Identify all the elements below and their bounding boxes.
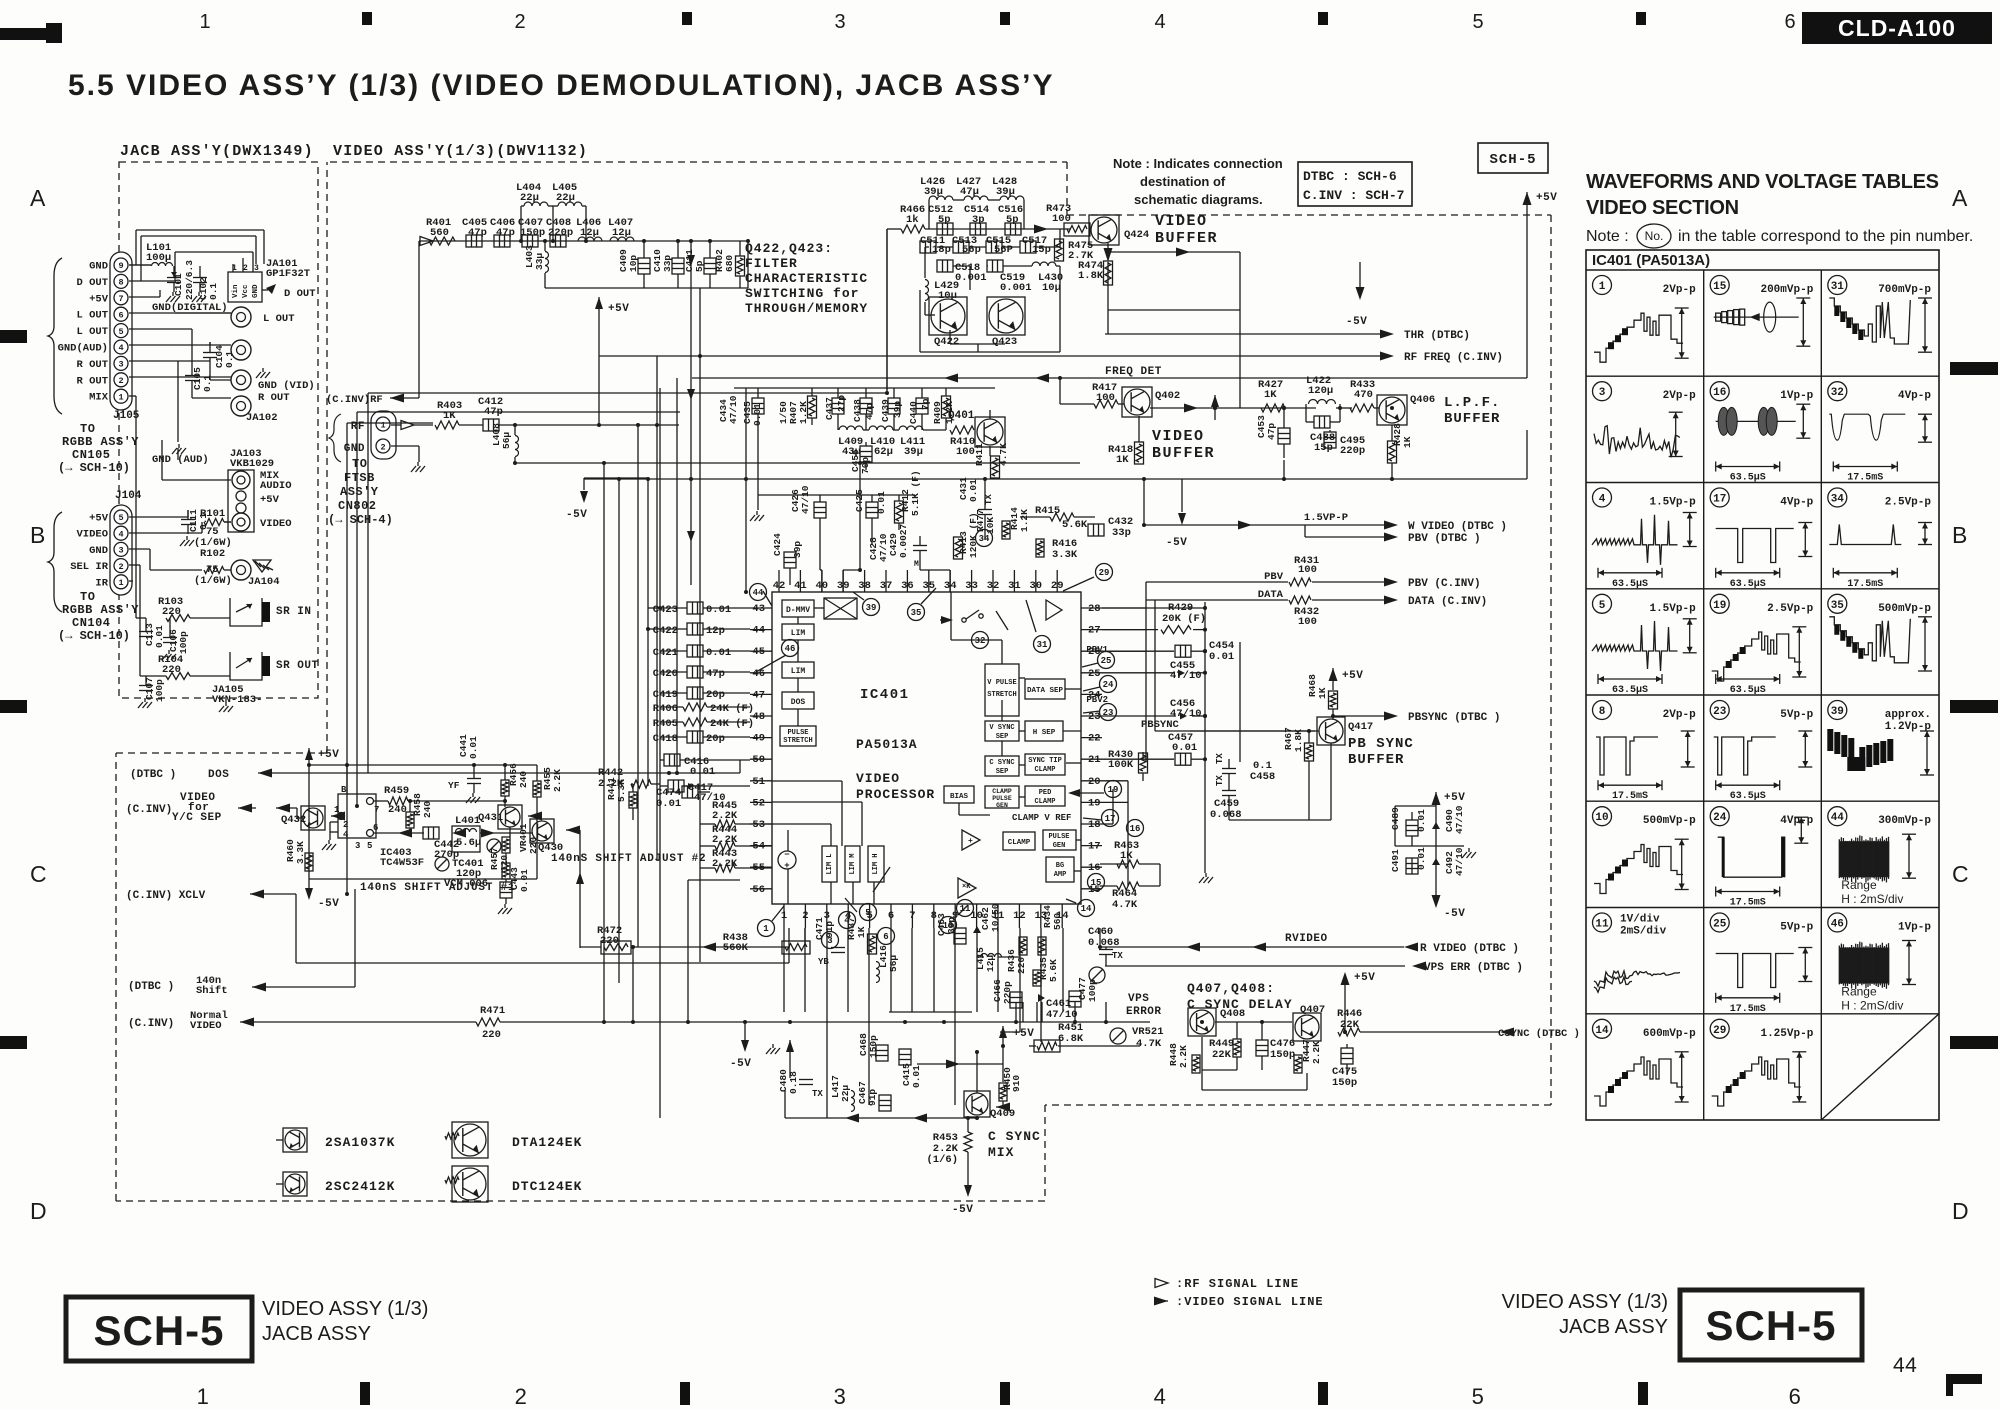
wire misc right <box>1239 642 1241 762</box>
svg-text:220: 220 <box>1016 957 1027 974</box>
up arrow near q402 <box>1211 395 1219 407</box>
svg-text:3.3K: 3.3K <box>1052 549 1078 561</box>
waveform cell pin 15 <box>1710 276 1729 295</box>
svg-text:150p: 150p <box>1332 1077 1357 1089</box>
svg-text:VIDEO ASSY (1/3): VIDEO ASSY (1/3) <box>1502 1291 1668 1313</box>
resistor R455 2.2K <box>533 781 541 797</box>
svg-text:D OUT: D OUT <box>76 277 108 289</box>
svg-text:47/10: 47/10 <box>800 485 811 514</box>
SCH-5 title block left <box>66 1297 252 1361</box>
svg-text:1K: 1K <box>1264 389 1277 401</box>
svg-text:14: 14 <box>1081 904 1092 914</box>
waveform cell pin 4 <box>1593 488 1612 507</box>
right ladder rows <box>1102 607 1205 609</box>
svg-text:-5V: -5V <box>1166 537 1187 549</box>
svg-text:27: 27 <box>1088 625 1101 637</box>
wire vertical x633 lower <box>632 947 634 1022</box>
svg-text:PED: PED <box>1039 789 1052 797</box>
svg-text:C438: C438 <box>852 399 863 422</box>
svg-text:in the table correspond to the: in the table correspond to the pin numbe… <box>1678 228 1973 245</box>
svg-text:VIDEO ASSY (1/3): VIDEO ASSY (1/3) <box>262 1298 428 1320</box>
svg-text:17: 17 <box>1088 841 1101 853</box>
svg-text:No.: No. <box>1645 229 1664 243</box>
svg-text:2: 2 <box>118 376 123 386</box>
svg-text:8: 8 <box>1599 706 1606 718</box>
svg-text:0.01: 0.01 <box>1209 651 1234 663</box>
svg-text:PBV2: PBV2 <box>1086 695 1108 705</box>
svg-text:5: 5 <box>367 841 372 851</box>
svg-text:ASS'Y: ASS'Y <box>340 485 379 499</box>
waveform cell pin 1 <box>1593 276 1612 295</box>
capacitor C475 150p <box>1341 1048 1353 1064</box>
JA101 pin top stubs <box>232 264 234 272</box>
svg-text:10/50: 10/50 <box>990 903 1001 932</box>
block H SEP <box>1025 721 1063 741</box>
legend transistor 2SA1037K <box>283 1128 307 1152</box>
svg-text:IR: IR <box>95 577 108 589</box>
svg-text:0.18: 0.18 <box>788 1071 799 1094</box>
svg-text:0.01: 0.01 <box>752 403 763 426</box>
wire IC bottom pin columns <box>783 928 785 1012</box>
svg-text:VIDEO: VIDEO <box>1152 428 1205 445</box>
svg-text:BG: BG <box>1056 862 1064 870</box>
IC401 outline <box>772 592 1081 904</box>
svg-text:33p: 33p <box>662 255 673 272</box>
svg-text:11: 11 <box>960 904 971 914</box>
svg-text:51: 51 <box>752 776 765 788</box>
capacitor C477 100p <box>1069 991 1081 1007</box>
SR IN jack <box>230 598 262 626</box>
svg-text:47/10: 47/10 <box>728 395 739 424</box>
svg-text:(C.INV) XCLV: (C.INV) XCLV <box>126 890 206 902</box>
svg-text:12μ: 12μ <box>985 955 996 972</box>
svg-text:approx.: approx. <box>1885 709 1931 721</box>
CSYNC arrow <box>1500 1028 1514 1037</box>
open arrow after CN601 <box>401 421 414 430</box>
wire horizontal bus y479 <box>584 478 1527 480</box>
svg-text:B: B <box>30 522 46 548</box>
capacitor C476 150p <box>1256 1040 1268 1056</box>
svg-text:120μ: 120μ <box>1308 385 1333 397</box>
inductor L429 10u vertical <box>925 280 929 301</box>
block SYNC TIP CLAMP <box>1025 754 1065 775</box>
svg-text:2.5Vp-p: 2.5Vp-p <box>1885 497 1932 509</box>
+5V arrow mid <box>595 297 603 309</box>
right edge marks <box>1950 362 1998 375</box>
svg-text:1: 1 <box>1599 281 1606 293</box>
optocoupler JA101 GP1F32T <box>228 272 262 302</box>
-5V arrow bottom <box>741 1040 749 1052</box>
svg-text:BUFFER: BUFFER <box>1348 752 1404 768</box>
svg-text:5: 5 <box>865 908 870 918</box>
svg-text:10: 10 <box>1595 812 1608 824</box>
IC internal LIM feeds <box>772 780 842 782</box>
svg-text:1: 1 <box>763 924 769 934</box>
svg-text:100: 100 <box>1298 564 1317 576</box>
svg-text:(→ SCH-10): (→ SCH-10) <box>58 629 130 643</box>
resistor R467 1.8K <box>1305 743 1314 761</box>
svg-text:GND(DIGITAL): GND(DIGITAL) <box>152 302 228 314</box>
svg-text:MIX: MIX <box>89 392 109 404</box>
waveform cell pin 39 <box>1828 701 1847 720</box>
VPS ERR arrow <box>1105 965 1405 967</box>
bottom wire with arrows <box>785 1117 977 1119</box>
svg-text:0.1: 0.1 <box>208 283 219 300</box>
svg-text:Y/C SEP: Y/C SEP <box>172 812 222 824</box>
svg-text:DOS: DOS <box>208 769 229 781</box>
svg-text:R102: R102 <box>200 548 225 560</box>
block D-MMV <box>782 600 814 617</box>
svg-text:56p: 56p <box>962 244 981 256</box>
svg-text:LIM L: LIM L <box>826 853 834 874</box>
svg-text:17: 17 <box>1105 814 1116 824</box>
svg-text:3p: 3p <box>972 214 985 226</box>
svg-text:CN104: CN104 <box>72 616 111 630</box>
svg-text:12p: 12p <box>706 625 725 637</box>
svg-text:L OUT: L OUT <box>263 313 295 325</box>
-5V mid <box>1356 287 1365 300</box>
bottom right corner mark <box>1946 1374 1982 1384</box>
wire horizontal y412 <box>357 411 680 413</box>
svg-text:0.0027: 0.0027 <box>898 523 909 558</box>
svg-text:(→ SCH-4): (→ SCH-4) <box>328 513 393 527</box>
svg-text:PBSYNC: PBSYNC <box>1141 719 1180 731</box>
svg-text:LIM: LIM <box>791 667 806 676</box>
svg-text:15: 15 <box>1091 878 1102 888</box>
svg-text:SEP: SEP <box>996 733 1009 741</box>
svg-text:R459: R459 <box>384 785 409 797</box>
svg-text:47p: 47p <box>1266 423 1277 440</box>
svg-text:22K: 22K <box>1212 1049 1232 1061</box>
svg-text:SYNC TIP: SYNC TIP <box>1028 757 1062 765</box>
+5V above R468 <box>1329 668 1338 681</box>
svg-text:47p: 47p <box>706 668 725 680</box>
wire pins 20-18 to right column <box>1102 823 1113 825</box>
svg-text:25: 25 <box>1101 656 1112 666</box>
svg-text:CLAMP: CLAMP <box>1008 839 1031 847</box>
resistor R434 560 <box>1038 937 1046 955</box>
svg-text:9: 9 <box>118 261 123 271</box>
svg-text:Q407: Q407 <box>1300 1004 1325 1016</box>
svg-text:6: 6 <box>118 310 123 320</box>
svg-text:140nS SHIFT ADJUST #2: 140nS SHIFT ADJUST #2 <box>551 853 706 865</box>
capacitor C442 270p <box>423 827 439 839</box>
svg-text:B: B <box>341 785 347 795</box>
svg-text:19: 19 <box>1088 797 1101 809</box>
svg-text:BUFFER: BUFFER <box>1444 411 1500 427</box>
svg-text:1k: 1k <box>906 214 919 226</box>
svg-text:63.5μS: 63.5μS <box>1730 685 1766 696</box>
svg-text:DATA SEP: DATA SEP <box>1027 687 1064 695</box>
svg-text:5p: 5p <box>938 214 951 226</box>
svg-text:2.2K: 2.2K <box>1178 1045 1189 1068</box>
transistor Q401 <box>975 417 1005 447</box>
svg-text:17.5mS: 17.5mS <box>1730 1004 1766 1015</box>
svg-text:4.7K: 4.7K <box>998 443 1009 466</box>
svg-text:7: 7 <box>118 294 123 304</box>
capacitor C518 0.001 <box>937 260 953 272</box>
svg-text:D: D <box>30 1198 47 1224</box>
svg-text:DTBC : SCH-6: DTBC : SCH-6 <box>1303 169 1397 184</box>
circled 25 24 23 right side <box>1098 652 1115 669</box>
svg-text:R OUT: R OUT <box>258 392 290 404</box>
svg-text:240: 240 <box>518 771 529 788</box>
circled 34 <box>976 530 993 547</box>
inductor L410 62u <box>869 426 893 430</box>
svg-text:46: 46 <box>785 644 796 654</box>
svg-text:10p: 10p <box>628 255 639 272</box>
block BIAS <box>944 786 974 803</box>
svg-text:(C.INV): (C.INV) <box>128 1018 174 1030</box>
svg-text:240: 240 <box>388 804 407 816</box>
svg-text:PBV1: PBV1 <box>1086 645 1108 655</box>
wire RVIDEO vertical <box>1099 928 1101 947</box>
capacitor C488 15p <box>1314 416 1330 428</box>
jack JA104 <box>231 560 251 580</box>
q401 wires <box>989 446 991 456</box>
svg-text:2.2K: 2.2K <box>1311 1041 1322 1064</box>
svg-text:1.8K: 1.8K <box>1078 270 1104 282</box>
svg-text:−: − <box>784 850 789 860</box>
block PED CLAMP <box>1025 786 1065 806</box>
transistor Q402 video buffer <box>1122 387 1152 417</box>
op-amp lower <box>958 878 976 898</box>
svg-text:50: 50 <box>752 754 765 766</box>
svg-text:+5V: +5V <box>1354 972 1375 984</box>
svg-text:TX: TX <box>1112 951 1123 961</box>
svg-text:L401: L401 <box>455 815 480 827</box>
gnd aud <box>172 448 177 454</box>
svg-text:5p: 5p <box>1006 214 1019 226</box>
jack GND(VID) <box>231 370 251 390</box>
svg-text:AMP: AMP <box>1054 871 1067 879</box>
svg-text:35: 35 <box>911 608 922 618</box>
svg-text:-5V: -5V <box>952 1204 973 1216</box>
resistor R412 5.1K(F) <box>895 501 904 523</box>
svg-text:Q431: Q431 <box>478 812 503 824</box>
svg-text:18p: 18p <box>932 244 951 256</box>
svg-text:BUFFER: BUFFER <box>1155 230 1218 247</box>
capacitor C438 47p <box>860 398 872 414</box>
wire vertical x691 with arrows <box>690 241 692 585</box>
svg-text:Q406: Q406 <box>1410 394 1435 406</box>
svg-text:0.068: 0.068 <box>1210 809 1242 821</box>
svg-text:+5V: +5V <box>89 513 109 525</box>
svg-text:R411: R411 <box>974 443 985 466</box>
svg-text:56: 56 <box>752 884 765 896</box>
waveform cell pin 31 <box>1828 276 1847 295</box>
svg-text:100: 100 <box>956 446 975 458</box>
resistor R474 1.8K <box>1104 261 1113 285</box>
transistor Q432 <box>301 806 325 830</box>
svg-text:29: 29 <box>1713 1025 1726 1037</box>
inductor L417 22u <box>851 1091 855 1112</box>
block DOS <box>782 692 814 709</box>
svg-text:0.01: 0.01 <box>968 479 979 502</box>
svg-text:Range: Range <box>1841 878 1877 892</box>
wire y540 IC top feeds <box>745 388 747 592</box>
svg-text::RF SIGNAL LINE: :RF SIGNAL LINE <box>1176 1277 1299 1291</box>
svg-text:2mS/div: 2mS/div <box>1620 926 1667 938</box>
svg-text:D-MMV: D-MMV <box>786 606 810 615</box>
svg-text:Q432: Q432 <box>281 814 306 826</box>
wire L408 bottom bus y463 <box>515 462 1080 464</box>
svg-text:1.25Vp-p: 1.25Vp-p <box>1760 1028 1813 1040</box>
+5V arrow c489 <box>1432 792 1441 805</box>
resistor R409 1.2K <box>942 396 951 418</box>
svg-text:3: 3 <box>118 360 123 370</box>
wire x860 rf to ic <box>859 463 861 570</box>
svg-text:DTC124EK: DTC124EK <box>512 1179 582 1194</box>
svg-text:47/10: 47/10 <box>1170 670 1202 682</box>
svg-text:150p: 150p <box>1270 1049 1295 1061</box>
svg-text:Q423: Q423 <box>992 336 1017 348</box>
svg-text:5Vp-p: 5Vp-p <box>1780 922 1813 934</box>
top rail shift block <box>309 764 537 766</box>
svg-text:(1/6): (1/6) <box>926 1154 958 1166</box>
capacitor C439 39p <box>888 398 900 414</box>
svg-text:DOS: DOS <box>791 698 806 707</box>
svg-text:63.5μS: 63.5μS <box>1612 685 1648 696</box>
connector J105 <box>110 252 132 410</box>
svg-text:39μ: 39μ <box>904 446 923 458</box>
svg-text:15: 15 <box>1713 281 1727 293</box>
svg-text:+5V: +5V <box>1013 1028 1034 1040</box>
svg-text:63.5μS: 63.5μS <box>1612 579 1648 590</box>
svg-text:C.INV : SCH-7: C.INV : SCH-7 <box>1303 188 1404 203</box>
op-amp in IC top right <box>1046 600 1062 620</box>
waveform cell pin 5 <box>1593 594 1612 613</box>
svg-text:D: D <box>1952 1198 1969 1224</box>
svg-text:(→ SCH-10): (→ SCH-10) <box>58 461 130 475</box>
svg-text:4.7K: 4.7K <box>1112 899 1138 911</box>
svg-text:1: 1 <box>380 421 385 431</box>
svg-text:J104: J104 <box>115 490 142 502</box>
switch symbol inside IC <box>962 618 966 622</box>
svg-text:47: 47 <box>752 689 765 701</box>
R VIDEO arrow <box>1100 946 1404 948</box>
svg-text:46: 46 <box>1831 918 1844 930</box>
main line q422 block <box>925 228 1070 230</box>
svg-text:C439: C439 <box>880 399 891 422</box>
wire +5v x1527 lower <box>1526 430 1528 479</box>
svg-text:5.6μ: 5.6μ <box>456 837 481 849</box>
svg-text:GP1F32T: GP1F32T <box>266 268 310 280</box>
svg-text:46: 46 <box>752 668 765 680</box>
svg-text:1: 1 <box>199 11 210 33</box>
svg-text:ERROR: ERROR <box>1126 1006 1162 1018</box>
svg-text:Vin: Vin <box>232 284 240 298</box>
waveform cell pin 29 <box>1710 1019 1729 1038</box>
wire vertical bundle left of IC <box>603 463 605 1022</box>
svg-text:20K (F): 20K (F) <box>1162 613 1206 625</box>
svg-text:CLAMP: CLAMP <box>1034 798 1055 806</box>
svg-text:700mVp-p: 700mVp-p <box>1878 284 1931 296</box>
resistor R410 100 <box>950 426 974 434</box>
current source symbol <box>778 851 796 869</box>
svg-text:4: 4 <box>118 343 123 353</box>
up +5V arrow mid2 <box>999 1026 1007 1038</box>
svg-text:PA5013A: PA5013A <box>856 737 918 752</box>
svg-text:RGBB ASS'Y: RGBB ASS'Y <box>62 603 139 617</box>
svg-text:1.5Vp-p: 1.5Vp-p <box>1649 497 1696 509</box>
svg-text:3: 3 <box>118 546 123 556</box>
block CLAMP <box>1003 832 1035 850</box>
svg-text:(DTBC ): (DTBC ) <box>128 981 174 993</box>
circled 19 17 16 15 14 <box>1105 781 1122 798</box>
svg-text:6: 6 <box>1784 11 1795 33</box>
svg-text:0.001: 0.001 <box>1000 282 1032 294</box>
wires IC left caps feed <box>648 607 660 609</box>
svg-text:B: B <box>1952 522 1968 548</box>
brace TO RGBB CN105 <box>48 258 62 414</box>
svg-text:+5V: +5V <box>1444 792 1465 804</box>
wires J105 to jacks <box>129 264 151 266</box>
svg-text:49: 49 <box>752 733 765 745</box>
waveform cell pin 44 <box>1828 807 1847 826</box>
svg-text:5: 5 <box>1472 11 1483 33</box>
svg-text:0.01: 0.01 <box>690 766 715 778</box>
wire loop above L101 to JA101 <box>135 230 137 265</box>
svg-text:16: 16 <box>1088 862 1101 874</box>
svg-text:31: 31 <box>1831 281 1845 293</box>
waveform cell pin 14 <box>1593 1019 1612 1038</box>
Q417 base wire <box>1190 730 1319 732</box>
svg-text:240: 240 <box>422 801 433 818</box>
svg-text:3: 3 <box>834 11 845 33</box>
svg-text:47p: 47p <box>468 227 487 239</box>
waveform cell pin 35 <box>1828 594 1847 613</box>
svg-text:0.01: 0.01 <box>706 604 731 616</box>
svg-text:+: + <box>784 861 789 871</box>
block C SYNC SEP <box>985 756 1019 776</box>
wire main filter line <box>419 240 748 242</box>
wire JA103 to J105 bus <box>162 479 231 481</box>
waveform empty cell <box>1821 1014 1939 1120</box>
svg-text:GND: GND <box>89 545 108 557</box>
svg-text:TC4W53F: TC4W53F <box>380 857 424 869</box>
resistor R474 vertical wire <box>1107 262 1109 334</box>
svg-text:VPS: VPS <box>1128 993 1149 1005</box>
svg-text:CHARACTERISTIC: CHARACTERISTIC <box>745 271 868 286</box>
svg-text:CLAMP: CLAMP <box>1034 766 1055 774</box>
svg-text:70p: 70p <box>860 457 871 474</box>
svg-text:4: 4 <box>343 830 349 840</box>
wire q422 feed vertical x887 <box>886 229 888 393</box>
svg-text:PULSE: PULSE <box>787 729 808 737</box>
svg-text:28: 28 <box>1088 603 1101 615</box>
svg-text:C437: C437 <box>824 397 835 420</box>
waveform cell pin 46 <box>1828 913 1847 932</box>
svg-text:-5V: -5V <box>318 898 339 910</box>
SR OUT jack <box>230 652 262 680</box>
svg-text:47p: 47p <box>864 403 875 420</box>
svg-text:220p: 220p <box>1340 445 1365 457</box>
svg-text:BUFFER: BUFFER <box>1152 445 1215 462</box>
svg-text:AUDIO: AUDIO <box>260 480 292 492</box>
svg-text:Q422: Q422 <box>934 336 959 348</box>
wire bus down from J105 <box>135 396 137 560</box>
svg-text:6.8K: 6.8K <box>1058 1033 1084 1045</box>
transistor Q422 <box>929 297 967 335</box>
inductor L415 12u <box>981 954 1002 957</box>
svg-text:STRETCH: STRETCH <box>783 737 812 745</box>
svg-text:56μ: 56μ <box>888 955 899 972</box>
svg-text:SCH-5: SCH-5 <box>93 1307 224 1354</box>
svg-text:SEL IR: SEL IR <box>70 561 109 573</box>
svg-text:C458: C458 <box>1250 771 1275 783</box>
svg-text:1Vp-p: 1Vp-p <box>1780 390 1813 402</box>
